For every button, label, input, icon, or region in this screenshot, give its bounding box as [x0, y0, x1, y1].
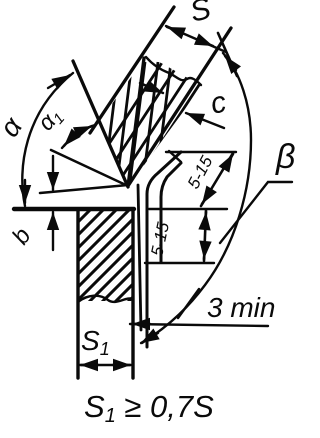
svg-text:b: b: [7, 223, 37, 249]
svg-text:3 min: 3 min: [207, 292, 275, 323]
svg-text:S: S: [187, 0, 214, 29]
svg-text:c: c: [208, 85, 230, 120]
svg-text:S1: S1: [81, 325, 110, 359]
svg-text:5-15: 5-15: [147, 220, 173, 258]
svg-text:α1: α1: [32, 102, 68, 137]
svg-text:β: β: [275, 138, 295, 176]
svg-text:S1 ≥ 0,7S: S1 ≥ 0,7S: [84, 389, 214, 427]
svg-text:α: α: [0, 111, 29, 143]
